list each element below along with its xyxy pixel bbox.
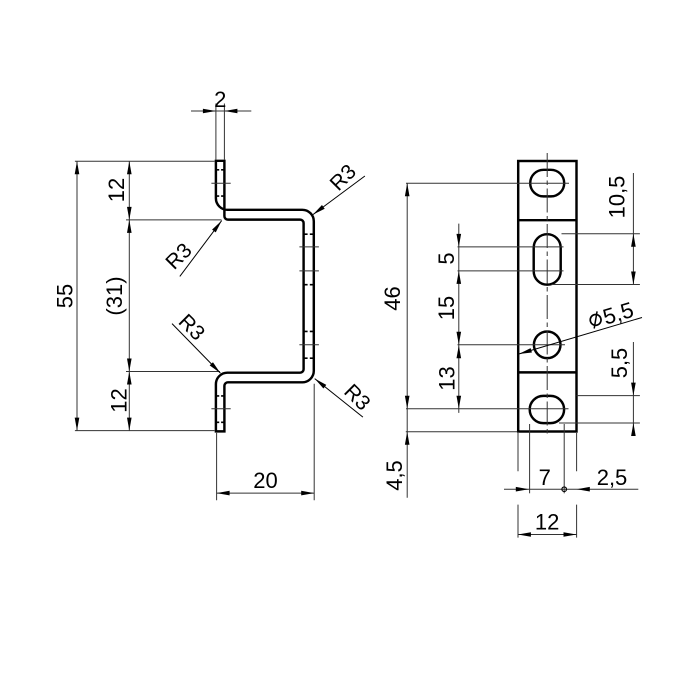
- R3 leader top-right: [313, 176, 365, 215]
- svg-text:(31): (31): [102, 276, 127, 315]
- dimension 46 / 4,5 : dim line: [406, 183, 408, 498]
- svg-text:15: 15: [434, 296, 459, 320]
- dimension 10,5 : dim line: [632, 173, 634, 285]
- strip edge extensions below: [518, 433, 577, 471]
- hole 4 slot 7x5.5: [530, 396, 564, 423]
- svg-text:2,5: 2,5: [597, 465, 628, 490]
- dimension 2 : dim line: [191, 110, 251, 112]
- hole 4 centerline (side view): [211, 408, 230, 410]
- ø5,5 text: [587, 297, 636, 334]
- bend line bottom: [518, 371, 576, 373]
- dimension 12 bottom : text: [107, 388, 132, 412]
- svg-text:46: 46: [380, 286, 405, 310]
- svg-text:55: 55: [52, 284, 77, 308]
- svg-text:20: 20: [253, 468, 277, 493]
- dimension 4,5 : text: [382, 460, 407, 491]
- slot2 arc centerline extensions for 5: [458, 246, 564, 248]
- svg-text:12: 12: [104, 178, 129, 202]
- hole 2 arc centerlines (side view): [299, 246, 319, 248]
- dimension 55 : dim line: [76, 161, 78, 430]
- svg-text:5,5: 5,5: [607, 348, 632, 379]
- ø5,5 leader: [519, 318, 642, 355]
- hole4 edge extensions for 7: [529, 424, 531, 493]
- svg-text:R3: R3: [161, 239, 196, 274]
- dimension 46 : text: [380, 286, 405, 310]
- dimension 7 / 2,5 : dim line: [504, 488, 638, 490]
- svg-text:4,5: 4,5: [382, 460, 407, 491]
- dimension 2 : arrows: [203, 109, 216, 114]
- svg-text:7: 7: [539, 465, 551, 490]
- dimension 20 : extension lines: [217, 384, 315, 501]
- dimension 5,5 : dim line: [632, 342, 634, 436]
- svg-text:R3: R3: [174, 310, 209, 345]
- hole 2 slot hidden edges in right panel: [304, 234, 314, 285]
- vertical centerline: [546, 153, 548, 435]
- hole 3 hidden edges in right panel: [304, 331, 314, 358]
- strip outline: [518, 161, 576, 432]
- R3 leader bottom-right: [315, 379, 363, 418]
- svg-text:13: 13: [435, 366, 460, 390]
- svg-text:10,5: 10,5: [604, 176, 629, 219]
- svg-text:12: 12: [535, 510, 559, 535]
- dimension 2 : extension lines: [216, 104, 225, 160]
- hole3 centerline extension for 15/13: [458, 344, 566, 346]
- svg-text:R3: R3: [339, 380, 374, 415]
- dimension 5 : text: [434, 252, 459, 264]
- hole4 top/bottom edge extensions for 5,5: [577, 395, 640, 397]
- svg-text:2: 2: [214, 87, 226, 112]
- origin circle: [562, 487, 567, 492]
- dimension 5,5 : text: [607, 348, 632, 379]
- hole 4 hidden edges in bottom flange: [216, 396, 225, 422]
- hole1 centerline / 46 extension: [406, 182, 569, 184]
- svg-text:5,5: 5,5: [600, 297, 636, 330]
- svg-text:5: 5: [434, 252, 459, 264]
- hole 1 slot 7x5.5: [530, 170, 564, 197]
- dimension 12 : dim line: [518, 534, 577, 536]
- bend line top: [518, 219, 576, 221]
- bottom edge extension for 4,5: [406, 431, 518, 433]
- dimension 10,5 : text: [604, 176, 629, 219]
- dimension 5/15/13 : dim line: [458, 224, 460, 413]
- hole 3 circle ø5.5: [534, 332, 561, 359]
- hole 2 slot vertical: [534, 234, 561, 285]
- dimension 55 : text: [52, 284, 77, 308]
- dimension (31) : text: [102, 276, 127, 315]
- svg-text:12: 12: [107, 388, 132, 412]
- hole 1 hidden edges (dashes) in top flange: [216, 170, 225, 196]
- slot2 top/bottom edge extensions for 10,5: [562, 233, 640, 235]
- dimension 15 : text: [434, 296, 459, 320]
- dimension 13 : text: [435, 366, 460, 390]
- dimension 12 top : text: [104, 178, 129, 202]
- dimension 55/12/(31)/12 : extension lines: [75, 160, 215, 162]
- R3 leader top-left: [180, 221, 222, 277]
- profile outline: [216, 161, 314, 432]
- dimension 12/(31)/12 : dim line: [128, 161, 130, 430]
- hole 3 centerline (side view): [299, 344, 319, 346]
- dimension 20 : dim line: [217, 492, 315, 494]
- R3 leader bottom-left: [172, 324, 220, 374]
- hole4 centerline / 46 extension: [406, 408, 569, 410]
- hole 1 centerline (side view): [211, 182, 230, 184]
- svg-text:R3: R3: [326, 160, 361, 195]
